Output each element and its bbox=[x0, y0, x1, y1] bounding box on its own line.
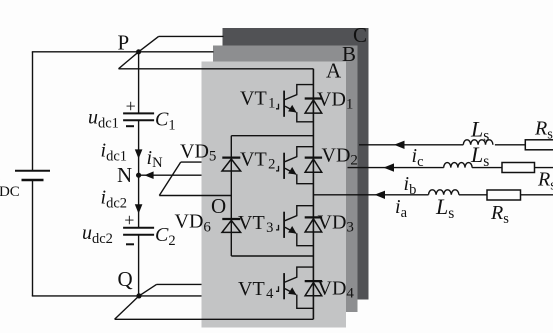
inductor Ls phase c bbox=[463, 140, 493, 145]
emitter arrow VT2 bbox=[288, 167, 296, 175]
resistor Rs phase c bbox=[525, 140, 553, 150]
node Q bbox=[136, 293, 141, 298]
wire: N fan diagonal bbox=[159, 162, 180, 195]
battery UDC long plate bbox=[15, 170, 50, 172]
arrow ic bbox=[394, 141, 405, 149]
emitter arrow VT1 bbox=[288, 105, 296, 113]
svg-text:Rs: Rs bbox=[490, 202, 509, 227]
svg-text:ib: ib bbox=[404, 173, 417, 198]
svg-text:ic: ic bbox=[412, 145, 424, 170]
panel C (back phase layer) bbox=[223, 28, 369, 300]
wire: P horizontal (left rail to panel B) bbox=[32, 51, 214, 53]
svg-text:Ls: Ls bbox=[435, 194, 454, 222]
svg-text:ia: ia bbox=[395, 196, 408, 221]
svg-text:P: P bbox=[118, 31, 130, 55]
minus sign C2 bbox=[126, 243, 134, 245]
diode VD1 bbox=[305, 99, 322, 114]
svg-text:Rs: Rs bbox=[537, 169, 553, 194]
panel A (front phase layer) bbox=[202, 62, 347, 328]
wire: left rail bottom segment bbox=[32, 180, 34, 296]
svg-text:+: + bbox=[126, 96, 136, 116]
transistor VT1 (IGBT) bbox=[276, 85, 313, 122]
svg-text:Q: Q bbox=[118, 267, 133, 291]
diode VD4 bbox=[305, 281, 322, 296]
wire: clamp box top edge bbox=[231, 135, 313, 137]
wire: C1 to node N bbox=[138, 120, 140, 175]
svg-text:C1: C1 bbox=[155, 109, 176, 134]
arrow iN bbox=[144, 171, 153, 179]
svg-text:C2: C2 bbox=[155, 224, 176, 249]
svg-text:A: A bbox=[326, 59, 342, 83]
svg-text:O: O bbox=[211, 194, 226, 218]
wire: left rail top segment bbox=[32, 52, 34, 171]
transistor VT4 (IGBT) bbox=[276, 267, 313, 308]
wire: phase a output bbox=[313, 194, 428, 196]
transistor VT3 (IGBT) bbox=[276, 206, 313, 246]
resistor Rs phase b bbox=[502, 163, 535, 173]
wire: Q horizontal bbox=[32, 295, 202, 297]
wire: phase b output bbox=[348, 167, 444, 169]
svg-text:iN: iN bbox=[147, 147, 164, 171]
svg-text:B: B bbox=[342, 42, 356, 66]
wire bbox=[495, 144, 525, 146]
capacitor C1 top plate bbox=[123, 112, 154, 114]
wire: Q to panel C bbox=[157, 283, 202, 285]
svg-text:idc1: idc1 bbox=[101, 140, 128, 165]
emitter arrow VT4 bbox=[288, 287, 296, 295]
battery UDC short plate bbox=[22, 179, 44, 181]
wire bbox=[472, 167, 502, 169]
resistor Rs phase a bbox=[487, 190, 521, 200]
transistor VT2 (IGBT) bbox=[276, 147, 313, 184]
svg-text:Ls: Ls bbox=[470, 117, 489, 145]
wire bbox=[459, 194, 487, 196]
inductor Ls phase b bbox=[444, 163, 472, 168]
wire: P to panel A rail bbox=[119, 68, 314, 70]
node P bbox=[136, 49, 141, 54]
wire: N to panel A clamp bus bbox=[159, 195, 231, 197]
wire: Q fan diagonal to layer C bbox=[139, 284, 157, 296]
arrow ib bbox=[384, 163, 395, 171]
arrow idc2 bbox=[135, 204, 143, 213]
wire: N to panel C bbox=[181, 161, 202, 163]
svg-text:udc2: udc2 bbox=[82, 222, 113, 247]
svg-text:idc2: idc2 bbox=[101, 187, 128, 212]
svg-text:udc1: udc1 bbox=[88, 107, 119, 132]
wire: C2 to node Q bbox=[138, 235, 140, 296]
wire: clamp box bottom edge bbox=[231, 255, 313, 257]
diode VD6 bbox=[222, 219, 241, 232]
wire: P fan diagonal to layer A bbox=[119, 52, 139, 69]
wire bbox=[535, 167, 553, 169]
minus sign C1 bbox=[126, 125, 134, 127]
capacitor C1 bottom plate bbox=[123, 119, 154, 121]
wire bbox=[521, 194, 553, 196]
diode VD3 bbox=[305, 217, 322, 232]
wire: P to panel C bbox=[159, 35, 224, 37]
emitter arrow VT3 bbox=[288, 226, 296, 234]
svg-text:UDC: UDC bbox=[0, 175, 20, 200]
wire: clamp bus vertical bbox=[230, 136, 232, 256]
capacitor C2 bottom plate bbox=[123, 234, 154, 236]
wire: N horizontal to panel B bbox=[139, 174, 202, 176]
inductor Ls phase a bbox=[429, 190, 459, 195]
arrow idc1 bbox=[135, 149, 143, 158]
capacitor C2 top plate bbox=[123, 227, 154, 229]
wire: P fan diagonal to layer C bbox=[139, 36, 159, 51]
arrow ia bbox=[375, 191, 386, 199]
svg-text:Rs: Rs bbox=[534, 118, 553, 143]
diode VD5 bbox=[222, 158, 241, 171]
wire: Q to panel A rail bottom bbox=[115, 318, 314, 320]
node N bbox=[136, 173, 141, 178]
panel B (middle phase layer) bbox=[213, 46, 358, 313]
svg-text:Ls: Ls bbox=[470, 142, 489, 170]
wire: panel A main rail bbox=[312, 69, 314, 319]
wire: Q fan diagonal to layer A bbox=[115, 296, 139, 319]
wire: N to capacitor C2 bbox=[138, 175, 140, 228]
wire: P down to capacitor C1 bbox=[138, 52, 140, 114]
diode VD2 bbox=[305, 158, 322, 173]
svg-text:N: N bbox=[117, 163, 132, 187]
wire: phase c output bbox=[359, 144, 463, 146]
